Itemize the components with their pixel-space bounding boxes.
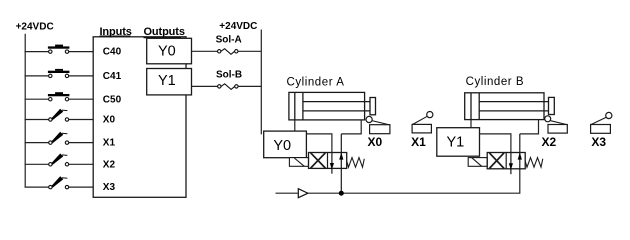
- pushbutton PB C40: [48, 45, 70, 54]
- svg-text:X2: X2: [542, 135, 557, 149]
- right +24VDC bus wire: [260, 30, 262, 135]
- valve A return spring: [347, 158, 365, 168]
- output box Y0: [147, 38, 192, 64]
- limit switch X3 (released): [591, 112, 612, 133]
- svg-text:Sol-A: Sol-A: [216, 34, 242, 45]
- solenoid Sol-A: [192, 49, 262, 55]
- valve A blocked chamber X: [311, 153, 326, 168]
- svg-text:X0: X0: [368, 135, 383, 149]
- pipe: cylinder B left port down to Y1 valve box: [470, 120, 472, 129]
- air supply triangle: [298, 189, 308, 198]
- cylinder B piston: [470, 93, 472, 120]
- svg-text:Y1: Y1: [447, 135, 465, 151]
- svg-text:Y0: Y0: [273, 138, 291, 154]
- valve B body: [487, 153, 525, 169]
- Inputs header label: [100, 26, 132, 38]
- wire row 7 (X3): [25, 186, 49, 188]
- valve A exhaust line with down arrow: [330, 153, 334, 174]
- cylinder B rod: [479, 101, 549, 103]
- wire row 1 (C40): [25, 51, 49, 53]
- valve B Y1 label box: [437, 128, 480, 157]
- svg-text:Sol-B: Sol-B: [216, 70, 242, 81]
- cylinder B rod end plate: [549, 97, 555, 114]
- pipe: cylinder B right port down to valve B: [520, 120, 539, 134]
- cylinder A body: [289, 92, 365, 120]
- pushbutton PB C41: [48, 69, 70, 78]
- limit switch X1 (released): [412, 112, 433, 133]
- wire row 4 (X0): [25, 119, 49, 121]
- svg-text:Outputs: Outputs: [144, 26, 185, 38]
- valve A body: [309, 153, 347, 169]
- knife switch X0 input: [49, 109, 69, 122]
- cylinder A rod: [303, 101, 370, 103]
- svg-text:X1: X1: [411, 135, 426, 149]
- svg-text:X0: X0: [103, 115, 116, 126]
- wire row 6 (X2): [25, 163, 49, 165]
- svg-text:C50: C50: [103, 94, 122, 105]
- pipe: cylinder A left port down to Y0 valve box: [294, 120, 296, 132]
- svg-text:C41: C41: [103, 71, 122, 82]
- wire row 2 (C41): [25, 75, 49, 77]
- pushbutton PB C50: [48, 92, 70, 101]
- wire row 5 (X1): [25, 142, 49, 144]
- cylinder B body: [465, 93, 544, 120]
- cylinder A piston: [294, 92, 296, 120]
- svg-text:+24VDC: +24VDC: [219, 21, 257, 32]
- junction node: [339, 191, 344, 196]
- valve A supply line with up arrow: [339, 134, 343, 193]
- PLC box U1: [93, 37, 186, 198]
- valve A solenoid actuator: [289, 158, 308, 167]
- cylinder A rod end plate: [370, 98, 376, 115]
- valve B blocked chamber X: [489, 153, 504, 169]
- svg-text:C40: C40: [103, 47, 122, 58]
- limit switch X0 (actuated): [366, 116, 390, 133]
- valve B exhaust line with down arrow: [509, 153, 513, 175]
- svg-text:+24VDC: +24VDC: [16, 22, 54, 33]
- valve B return spring: [525, 158, 543, 168]
- pipe: Y0 valve box to valve A left top port: [306, 134, 332, 153]
- svg-text:X2: X2: [103, 159, 116, 170]
- svg-text:X3: X3: [591, 135, 606, 149]
- output box Y1: [147, 69, 192, 95]
- knife switch X3 input: [49, 176, 69, 189]
- svg-text:Cylinder A: Cylinder A: [287, 76, 345, 88]
- air supply inlet wire: [276, 192, 299, 194]
- knife switch X2 input: [49, 154, 69, 167]
- svg-text:Y0: Y0: [158, 43, 176, 59]
- svg-text:Y1: Y1: [158, 73, 176, 89]
- svg-text:Cylinder B: Cylinder B: [466, 76, 525, 88]
- valve A Y0 label box: [264, 131, 307, 158]
- svg-text:X3: X3: [103, 182, 116, 193]
- limit switch X2 (actuated): [545, 116, 568, 133]
- air supply bus wire: [308, 169, 520, 193]
- valve B supply line with up arrow: [518, 134, 522, 169]
- valve B solenoid actuator: [468, 158, 487, 167]
- knife switch X1 input: [49, 132, 69, 145]
- left +24VDC bus wire: [24, 34, 26, 187]
- pipe: cylinder A right port down to valve A: [341, 120, 361, 134]
- pipe: Y1 valve box to valve B left top port: [480, 134, 511, 153]
- wire row 3 (C50): [25, 98, 49, 100]
- solenoid Sol-B: [192, 84, 262, 90]
- Outputs header label: [144, 26, 185, 38]
- svg-text:X1: X1: [103, 138, 116, 149]
